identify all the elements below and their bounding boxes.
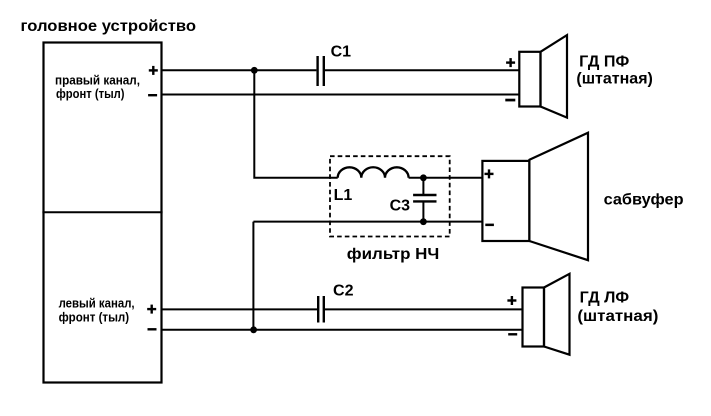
minus terminal, left channel: [148, 328, 157, 330]
node: junction at C3 top: [420, 174, 427, 181]
node: junction on right + wire: [251, 67, 258, 74]
wire: right channel - to speaker ГД ПФ -: [162, 94, 520, 96]
wire: C2 to speaker ГД ЛФ +: [325, 308, 523, 310]
svg-text:C3: C3: [390, 197, 411, 214]
wire: bottom filter rail to subwoofer -: [253, 221, 482, 223]
label: ГД ПФ (штатная): [576, 54, 653, 88]
speaker ГД ЛФ (rect + horn): [523, 274, 570, 355]
subwoofer speaker (rect + horn): [482, 133, 588, 261]
svg-text:левый канал,: левый канал,: [59, 296, 135, 311]
svg-text:C1: C1: [331, 44, 352, 61]
label: ГД ЛФ (штатная): [577, 290, 658, 325]
svg-text:сабвуфер: сабвуфер: [604, 192, 684, 209]
plus terminal, left channel: [147, 305, 156, 314]
plus terminal, subwoofer: [485, 169, 494, 178]
svg-text:фронт (тыл): фронт (тыл): [59, 310, 130, 325]
capacitor C1: [318, 56, 324, 86]
svg-text:ГД ПФ: ГД ПФ: [579, 54, 629, 71]
wire: C1 to speaker ГД ПФ +: [325, 69, 519, 71]
wire: left channel - to speaker ГД ЛФ -: [162, 329, 523, 331]
wire: junction down to filter input: [254, 70, 337, 178]
label: левый канал, фронт (тыл): [59, 296, 135, 325]
minus terminal, speaker ГД ПФ: [505, 99, 515, 102]
minus terminal, speaker ГД ЛФ: [508, 333, 517, 335]
wire: C3 bottom plate down to bottom rail: [422, 201, 424, 221]
minus terminal, right channel: [148, 94, 157, 96]
svg-text:(штатная): (штатная): [577, 308, 658, 325]
wire: left channel + to C2: [162, 308, 318, 310]
svg-text:(штатная): (штатная): [576, 71, 653, 88]
wire: right channel + to C1: [162, 69, 317, 71]
capacitor C3: [413, 195, 436, 201]
plus terminal, speaker ГД ЛФ: [507, 296, 516, 305]
node: junction at C3 bottom: [420, 218, 427, 225]
dashed filter box: [330, 156, 450, 236]
wire: junction down to C3 top plate: [422, 178, 424, 195]
svg-text:C2: C2: [333, 283, 354, 300]
svg-text:L1: L1: [334, 187, 353, 204]
head unit box U1: [44, 43, 162, 383]
minus terminal, subwoofer: [485, 224, 494, 227]
wire: bottom rail corner down to left - junction: [252, 222, 254, 330]
svg-text:правый канал,: правый канал,: [55, 72, 140, 87]
svg-text:ГД ЛФ: ГД ЛФ: [580, 290, 630, 307]
speaker ГД ПФ (rect + horn): [519, 35, 567, 118]
svg-text:головное устройство: головное устройство: [21, 18, 197, 35]
svg-text:фронт (тыл): фронт (тыл): [56, 86, 125, 101]
plus terminal, right channel: [149, 66, 158, 75]
head unit divider line: [42, 211, 162, 213]
plus terminal, speaker ГД ПФ: [506, 58, 515, 67]
label: правый канал, фронт (тыл): [55, 72, 140, 101]
inductor L1: [338, 167, 409, 178]
capacitor C2: [318, 296, 324, 323]
svg-text:фильтр НЧ: фильтр НЧ: [347, 246, 440, 263]
wire: L1 to subwoofer +: [409, 177, 483, 179]
node: junction on left - wire: [250, 326, 257, 333]
